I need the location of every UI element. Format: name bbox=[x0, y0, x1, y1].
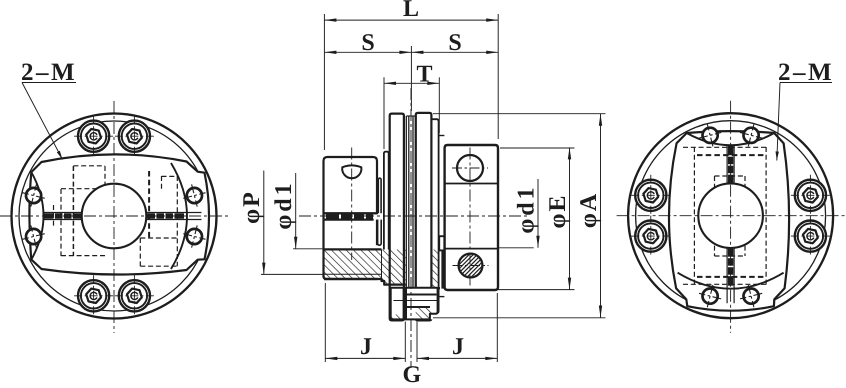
right view clamp band outline bbox=[669, 131, 789, 311]
left hub boss section hatch bbox=[324, 249, 382, 279]
left view cross-recess set screw 3 bbox=[183, 184, 205, 206]
dimension phi-P line bbox=[261, 171, 324, 275]
dimension L extension lines bbox=[324, 14, 498, 150]
dimension phi-d1 left line bbox=[293, 173, 324, 249]
right view socket head cap screw 1 bbox=[631, 175, 670, 216]
svg-text:J: J bbox=[452, 334, 464, 360]
left hub clamp screw axis centerline bbox=[351, 148, 353, 261]
left view horizontal centerline bbox=[0, 215, 228, 217]
label 2-M right bbox=[776, 59, 835, 161]
right hub face ring bbox=[439, 136, 445, 297]
right hub set screw sectioned bbox=[440, 252, 501, 280]
svg-text:2–M: 2–M bbox=[21, 59, 77, 86]
right hub face tab bbox=[439, 236, 444, 250]
disc pack left flange bbox=[390, 114, 404, 321]
svg-text:J: J bbox=[360, 334, 372, 360]
disc flange step ring bbox=[431, 119, 438, 313]
svg-text:φE: φE bbox=[545, 194, 571, 229]
svg-text:φd1: φd1 bbox=[271, 180, 297, 229]
dimension S line left bbox=[324, 51, 411, 54]
right view clamp slits bbox=[727, 145, 734, 303]
right hub clamp screw hole bbox=[452, 155, 488, 181]
dimension J line left bbox=[325, 357, 405, 360]
dimension phi-A label bbox=[576, 192, 602, 228]
dimension S label right bbox=[448, 30, 461, 56]
left view hidden keyway/pocket dashed lines bbox=[54, 166, 178, 266]
left hub flange section hatch bbox=[378, 250, 406, 285]
left hub clamp slit (section) bbox=[325, 213, 378, 219]
dimension J line right bbox=[417, 357, 497, 360]
right view horizontal centerline bbox=[617, 215, 845, 217]
svg-text:φA: φA bbox=[576, 192, 602, 228]
right view outer circle (coupling OD) bbox=[628, 113, 833, 318]
left view inner circle (flange edge) bbox=[19, 121, 209, 311]
dimension G label bbox=[402, 362, 421, 388]
left view band end face arcs bbox=[31, 163, 187, 269]
right view band end face arcs bbox=[678, 133, 784, 289]
right view cross-recess set screw 3 bbox=[699, 285, 721, 307]
right view socket head cap screw 4 bbox=[791, 216, 830, 257]
dimension T line bbox=[384, 82, 439, 85]
left view cross-recess set screw 2 bbox=[23, 225, 45, 247]
left view clamp band outline bbox=[29, 154, 209, 274]
right view socket head cap screw 3 bbox=[791, 175, 830, 216]
svg-text:S: S bbox=[448, 30, 461, 56]
dimension phi-A line bbox=[433, 114, 606, 318]
label 2-M left bbox=[21, 59, 77, 160]
svg-text:G: G bbox=[402, 362, 421, 383]
dimension phi-d1 right line bbox=[499, 179, 540, 248]
right view center bore circle bbox=[698, 183, 763, 248]
right hub flange section hatch bbox=[432, 250, 440, 289]
svg-text:φP: φP bbox=[239, 190, 265, 224]
clamp slit relief slot (lower) bbox=[378, 220, 382, 246]
dimension J label left bbox=[360, 334, 372, 360]
right view vertical centerline bbox=[730, 101, 732, 333]
middle view vertical centerline bbox=[410, 88, 412, 368]
dimension J label right bbox=[452, 334, 464, 360]
dimension S line right bbox=[411, 51, 498, 54]
dimension J extension lines bbox=[325, 283, 497, 362]
svg-text:2–M: 2–M bbox=[778, 59, 834, 86]
dimension phi-d1 right label bbox=[514, 184, 540, 233]
right view cross-recess set screw 2 bbox=[740, 124, 762, 146]
dimension T label bbox=[416, 62, 432, 88]
dimension phi-d1 left label bbox=[271, 180, 297, 229]
left view outer circle (coupling OD) bbox=[12, 114, 217, 319]
disc pack plates bbox=[406, 116, 415, 317]
right view cross-recess set screw 4 bbox=[740, 285, 762, 307]
right hub screw axis centerline bbox=[469, 148, 471, 289]
svg-text:T: T bbox=[416, 62, 432, 88]
dimension T extension lines bbox=[384, 77, 439, 149]
left view socket head cap screw 1 bbox=[74, 116, 113, 157]
svg-text:S: S bbox=[361, 30, 374, 56]
left view clamp slits bbox=[44, 213, 202, 220]
svg-text:L: L bbox=[403, 0, 419, 22]
dimension L label bbox=[403, 0, 419, 22]
dimension S extension line middle bbox=[410, 46, 412, 111]
dimension S label left bbox=[361, 30, 374, 56]
left hub clamp screw recess hole bbox=[342, 165, 361, 178]
right view inner circle (flange edge) bbox=[636, 121, 826, 311]
disc pack right flange bbox=[416, 113, 432, 321]
middle view axis centerline bbox=[299, 215, 528, 217]
left hub clamp collar (lower) bbox=[324, 213, 378, 249]
dimension phi-P label bbox=[239, 190, 265, 224]
right view socket head cap screw 2 bbox=[631, 216, 670, 257]
left view cross-recess set screw 1 bbox=[23, 184, 45, 206]
left hub clamp collar (upper) bbox=[324, 157, 378, 213]
dimension phi-E label bbox=[545, 194, 571, 229]
right hub body bbox=[445, 145, 498, 290]
svg-text:φd1: φd1 bbox=[514, 184, 540, 233]
right hub face section strip bbox=[441, 250, 444, 288]
left view socket head cap screw 4 bbox=[115, 275, 154, 316]
right hub bore lines bbox=[445, 184, 498, 249]
clamp slit relief slot (upper) bbox=[378, 178, 381, 213]
left view cross-recess set screw 4 bbox=[183, 225, 205, 247]
left view vertical centerline bbox=[113, 101, 115, 333]
dimension L line bbox=[324, 18, 498, 21]
right view hidden keyway/pocket dashed lines bbox=[683, 147, 767, 285]
left hub flange plate bbox=[384, 152, 389, 250]
left view socket head cap screw 3 bbox=[74, 275, 113, 316]
left view socket head cap screw 2 bbox=[115, 116, 154, 157]
left view center bore circle bbox=[82, 184, 147, 249]
disc pack bolt collar (bottom section) bbox=[389, 288, 438, 320]
right view cross-recess set screw 1 bbox=[699, 124, 721, 146]
dimension phi-E line bbox=[497, 147, 575, 289]
